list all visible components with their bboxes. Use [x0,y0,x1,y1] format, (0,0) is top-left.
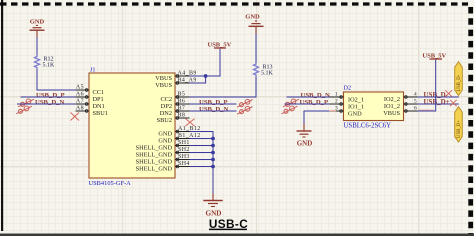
svg-text:USB_D+: USB_D+ [424,98,450,106]
J1 pin VBUS (A4_B9) [155,71,197,83]
wire to D2 pin 1 [287,96,330,98]
svg-text:SHELL_GND: SHELL_GND [136,152,173,159]
svg-text:DP1: DP1 [93,96,104,103]
svg-text:CC2: CC2 [160,96,172,103]
svg-text:B5: B5 [178,92,186,98]
J1 pin SHELL_GND (SH1) [136,140,190,152]
svg-text:VBUS: VBUS [155,75,172,82]
svg-text:IO1_2: IO1_2 [384,103,400,110]
J1 pin SHELL_GND (SH2) [136,147,190,159]
sheet border top (dashed black) [0,2,468,5]
J1 pin VBUS (B4_A9) [155,78,197,90]
port USB_D+ (bottom right) [455,107,463,142]
svg-text:USB_D_N: USB_D_N [35,99,65,106]
svg-text:USB_D_P: USB_D_P [199,99,228,106]
J1 pin SHELL_GND (SH3) [136,154,190,166]
svg-text:GND: GND [158,131,172,138]
wire D2 pin5 to port USB_D+ [418,103,459,105]
power port GND (bottom) [203,201,222,218]
wire DP2 [190,103,237,105]
diff pair directive (left P) [18,99,34,107]
svg-text:SHELL_GND: SHELL_GND [136,159,173,166]
svg-text:SHELL_GND: SHELL_GND [136,166,173,173]
wire to D2 pin 2 [285,103,330,105]
D2 pin GND (3) [330,106,363,118]
no-ERC marker at SBU1 [71,113,80,121]
connector J1 body [89,67,176,188]
svg-text:GND: GND [30,18,45,25]
junction VBUS [204,74,208,78]
D2 pin IO1_2 (5) [384,99,418,111]
svg-text:B7: B7 [178,106,186,112]
GND bus wire (J1 right) [190,132,214,194]
title USB-C [209,217,248,231]
J1 pin SBU2 (B8) [157,113,190,125]
svg-text:SHELL_GND: SHELL_GND [136,145,173,152]
D2 pin VBUS (6) [383,106,417,118]
wire VBUS pins to USB_5V [190,49,221,83]
svg-text:SH3: SH3 [178,154,190,160]
resistor R13 [254,63,274,77]
svg-text:6: 6 [414,106,417,112]
wire USB_5V to D2 VBUS [418,60,436,111]
J1 pin SBU1 (A8) [76,106,108,118]
resistor R12 [35,55,56,69]
svg-text:VBUS: VBUS [155,82,172,89]
svg-text:USB4105-GF-A: USB4105-GF-A [89,180,132,187]
svg-text:CC1: CC1 [93,89,105,96]
diff pair directive (right N) [237,106,253,114]
svg-text:GND: GND [297,140,313,148]
wire DN2 [190,110,237,112]
wire D2 pin4 to port USB_D- [418,96,459,98]
sheet border left (solid black) [1,0,3,231]
sheet border bottom (dark strip) [0,234,474,237]
wire R12 to pin CC1 [37,69,76,90]
svg-text:DP2: DP2 [161,103,172,110]
J1 pin SHELL_GND (SH4) [136,161,190,173]
svg-text:J1: J1 [90,67,96,74]
compile mask mark (D2 pin3) [329,110,336,112]
svg-text:USB_D_N: USB_D_N [199,106,229,113]
wire DN1 (left) [17,103,76,105]
diff pair directive (D2 P) [282,106,298,114]
wires GND/SHELL pins to bus [190,139,214,167]
D2 pin IO1_1 (2) [330,99,365,111]
diff pair directive (left N) [16,106,32,114]
svg-text:USB_D-: USB_D- [457,74,462,91]
svg-text:5.1K: 5.1K [43,63,56,69]
wire R13 to pin CC2 [190,77,257,97]
J1 pin GND (B1_A12) [158,133,200,145]
no-ERC marker at SBU2 [186,119,195,126]
J1 pin DN1 (A7) [76,99,105,111]
wire D2 GND pin to ground [304,111,330,124]
diff pair directive (right P) [237,99,253,107]
sheet border right (dashed black) [468,7,473,236]
svg-text:IO2_2: IO2_2 [384,96,400,103]
wire DP1 (left) [21,96,76,98]
D2 pin IO2_2 (4) [384,92,418,104]
power port USB_5V (right) [422,52,446,59]
svg-text:SH2: SH2 [178,147,190,153]
svg-text:DN1: DN1 [93,103,105,110]
J1 pin CC2 (B5) [160,92,189,104]
compile mask mark (D2 pin6 wire) [418,109,434,111]
no-ERC marker (USB_D+) [450,100,457,106]
power port USB_5V (above J1) [208,42,232,49]
svg-text:USB_D_P: USB_D_P [36,92,65,99]
svg-text:D2: D2 [344,84,352,91]
no-ERC marker (USB_D-) [445,90,452,96]
diode array D2 body [344,84,404,129]
svg-text:GND: GND [348,110,362,117]
svg-text:DN2: DN2 [160,110,172,117]
port USB_D- (top right) [455,62,463,96]
svg-text:4: 4 [414,92,417,98]
D2 pin IO2_1 (1) [330,92,365,104]
svg-text:SH1: SH1 [178,140,190,146]
J1 pin DP2 (B6) [161,99,190,111]
junction dots on GND bus [211,137,215,169]
svg-text:SBU1: SBU1 [93,110,108,117]
J1 pin GND (A1_B12) [158,126,200,138]
svg-text:USB_D+: USB_D+ [457,120,462,138]
power port GND (top middle) [245,14,263,27]
svg-text:A8: A8 [76,106,84,112]
svg-text:1: 1 [335,92,338,98]
svg-text:B6: B6 [178,99,186,105]
wire GND to R13 [255,26,257,33]
J1 pin CC1 (A5) [76,85,105,97]
svg-text:GND: GND [158,138,172,145]
svg-text:IO2_1: IO2_1 [348,96,364,103]
svg-text:SH4: SH4 [178,161,190,167]
svg-text:USBLC6-2SC6Y: USBLC6-2SC6Y [344,123,392,130]
svg-text:SBU2: SBU2 [157,117,172,124]
svg-text:B8: B8 [178,113,186,119]
J1 pin DP1 (A6) [76,92,104,104]
svg-text:USB_D_N: USB_D_N [301,92,331,99]
svg-text:A6: A6 [76,92,84,98]
svg-text:VBUS: VBUS [383,110,400,117]
power port GND (below D2) [297,131,313,148]
svg-text:5.1K: 5.1K [261,70,274,76]
svg-text:GND: GND [245,14,260,21]
svg-text:5: 5 [414,99,417,105]
svg-text:USB_D_P: USB_D_P [300,99,329,106]
svg-text:A5: A5 [76,85,84,91]
power port GND (top left) [30,18,45,30]
svg-text:A7: A7 [76,99,84,105]
svg-text:2: 2 [335,99,338,105]
svg-text:IO1_1: IO1_1 [348,103,364,110]
wire GND to R12 [36,30,38,37]
diff pair directive (D2 N) [283,99,299,107]
J1 pin DN2 (B7) [160,106,190,118]
